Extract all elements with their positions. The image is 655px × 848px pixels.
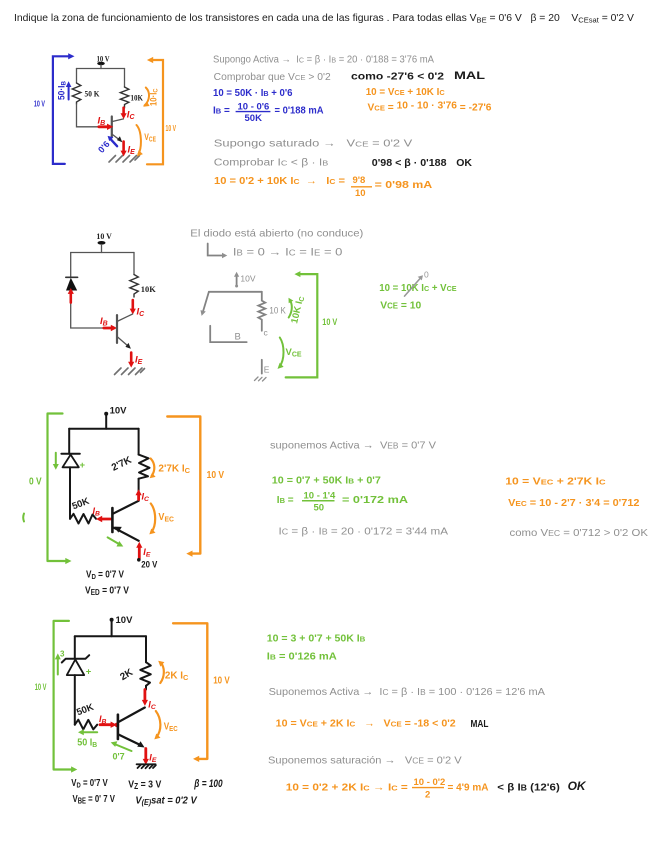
- annotation eq: 10=10KIc+VCE (green) with zero mark: [379, 270, 456, 297]
- sketch node B terminal: [210, 326, 247, 343]
- svg-text:β = 100: β = 100: [194, 778, 224, 790]
- svg-text:9'8: 9'8: [353, 175, 366, 186]
- annotation arrow 0'7 (green, emitter): [111, 741, 132, 761]
- diode D2 (cathode bar up, open triangle): [61, 454, 79, 468]
- bracket 10V (orange): [173, 623, 230, 762]
- svg-text:Suponemos saturación → VCE: Suponemos saturación → VCE = 0'2 V: [268, 755, 462, 767]
- svg-text:10 = 50K · IB + 0'6: 10 = 50K · IB + 0'6: [213, 88, 293, 99]
- svg-text:VZ = 3 V: VZ = 3 V: [128, 779, 161, 792]
- svg-text:10 - 0'2: 10 - 0'2: [414, 777, 446, 788]
- svg-text:10 = 0'2 + 2K IC → IC =: 10 = 0'2 + 2K IC → IC =: [286, 783, 408, 794]
- supply node 10V (circuit 1): [97, 55, 110, 69]
- svg-text:IC = β · IB = 20 · 0'172 =: IC = β · IB = 20 · 0'172 = 3'44 mA: [279, 526, 449, 538]
- ground (circuit 4, scribbled): [137, 764, 156, 768]
- transistor Q3 (PNP): [112, 501, 138, 541]
- svg-text:VD = 0'7 V: VD = 0'7 V: [86, 570, 124, 582]
- svg-text:+: +: [86, 667, 92, 678]
- bracket 10V (green) with wire from E: [286, 271, 338, 377]
- svg-text:MAL: MAL: [471, 718, 489, 730]
- ground (circuit 1): [109, 156, 140, 163]
- current arrow IB (red): [98, 116, 114, 131]
- svg-text:50K: 50K: [245, 113, 263, 124]
- svg-text:IB =: IB =: [213, 106, 230, 117]
- wire right branch upper: [138, 429, 140, 455]
- svg-text:IB = 0'126 mA: IB = 0'126 mA: [267, 652, 337, 663]
- diode D1 (cathode bar up, filled): [66, 277, 78, 290]
- annotation arrow up + 3 (green, zener voltage): [55, 650, 65, 675]
- svg-text:50 K: 50 K: [85, 90, 101, 99]
- svg-text:Comprobar IC < β · IB: Comprobar IC < β · IB: [214, 158, 329, 169]
- svg-text:2K IC: 2K IC: [165, 671, 189, 682]
- supply node 10V (circuit 2): [96, 231, 112, 253]
- current arrow IE (red): [121, 142, 136, 157]
- wire left branch to diode: [70, 253, 72, 278]
- svg-text:10K: 10K: [131, 94, 144, 103]
- svg-text:10 = 0'7 + 50K IB + 0'7: 10 = 0'7 + 50K IB + 0'7: [272, 476, 381, 487]
- svg-text:10 = VCE + 2K IC → VCE = -: 10 = VCE + 2K IC → VCE = -18 < 0'2: [276, 719, 456, 730]
- current arrow IE (red, up) + node 20V: [136, 542, 158, 571]
- resistor 50K (circuit 3): [70, 514, 96, 524]
- svg-text:E: E: [264, 365, 270, 375]
- bracket 10V source (blue): [34, 53, 75, 164]
- wire top rail: [77, 68, 125, 70]
- svg-text:10 K: 10 K: [269, 306, 285, 316]
- zener diode DZ (bar with bent ends, open triangle below): [62, 655, 89, 675]
- svg-text:0'7: 0'7: [113, 752, 125, 762]
- svg-text:10 V: 10 V: [34, 100, 45, 109]
- annotation I (green): [22, 514, 25, 522]
- svg-text:Suponemos Activa → IC = β ·: Suponemos Activa → IC = β · IB = 100 · 0…: [269, 686, 545, 698]
- wire right branch upper: [133, 253, 135, 275]
- svg-text:10 = VEC + 2'7K IC: 10 = VEC + 2'7K IC: [505, 477, 606, 488]
- svg-text:10 - 0'6: 10 - 0'6: [238, 102, 270, 113]
- svg-text:= 0'172 mA: = 0'172 mA: [342, 495, 408, 506]
- wire right branch upper: [145, 636, 147, 662]
- supply node 10V (circuit 4): [110, 615, 133, 636]
- svg-text:< β IB (12'6): < β IB (12'6): [497, 782, 560, 794]
- annotation arrow down (green, diode voltage): [53, 453, 59, 470]
- current arrow Ic (red): [121, 108, 136, 121]
- annotation arrow 0'6 (blue, across B-E): [96, 136, 117, 155]
- svg-text:0'98 < β · 0'188: 0'98 < β · 0'188: [372, 157, 447, 169]
- wire top rail: [71, 252, 134, 254]
- svg-text:0: 0: [424, 270, 429, 280]
- current arrow up through diode (red): [68, 288, 74, 303]
- annotation VEC (orange): [154, 711, 178, 739]
- resistor 10K (circuit 2): [130, 275, 139, 298]
- svg-text:10 V: 10 V: [207, 470, 225, 481]
- current arrow IB (red, pointing left): [93, 506, 111, 522]
- transistor Q1 (NPN): [112, 117, 124, 143]
- svg-text:suponemos Activa → VEB = 0': suponemos Activa → VEB = 0'7 V: [270, 440, 436, 452]
- svg-text:OK: OK: [568, 779, 587, 793]
- svg-text:OK: OK: [456, 157, 472, 169]
- svg-text:10 = VCE + 10K IC: 10 = VCE + 10K IC: [366, 87, 446, 98]
- annotation eq: 10=0'2+10KIc (orange): [214, 175, 432, 199]
- svg-text:VEC = 10 - 2'7 · 3'4 = 0'712: VEC = 10 - 2'7 · 3'4 = 0'712: [508, 498, 640, 509]
- svg-text:10 - 1'4: 10 - 1'4: [304, 491, 337, 502]
- svg-text:2: 2: [425, 790, 430, 801]
- svg-text:= 0'98 mA: = 0'98 mA: [375, 180, 433, 191]
- sketch node E terminal with ground: [255, 360, 270, 381]
- annotation 2K Ic (orange): [158, 661, 189, 683]
- resistor 50K (circuit 4): [75, 720, 97, 730]
- svg-text:como -27'6 < 0'2: como -27'6 < 0'2: [351, 71, 444, 83]
- svg-text:10 V: 10 V: [322, 317, 338, 328]
- svg-text:B: B: [235, 332, 241, 343]
- svg-text:IB = 0 → IC = IE = 0: IB = 0 → IC = IE = 0: [233, 247, 343, 259]
- annotation 2'7K Ic (orange): [150, 459, 191, 479]
- svg-text:10 = 10K IC + VCE: 10 = 10K IC + VCE: [379, 283, 456, 294]
- transistor Q4 (NPN): [118, 708, 145, 748]
- sketch annotation VCE (green): [278, 338, 302, 369]
- svg-text:10 V: 10 V: [166, 124, 177, 133]
- sketch wire top: [209, 291, 262, 293]
- svg-text:Supongo saturado → VCE = 0: Supongo saturado → VCE = 0'2 V: [214, 139, 413, 150]
- wire left branch lower to base: [77, 104, 101, 127]
- annotation eq: IB fraction (blue): [213, 102, 324, 125]
- wire resistor to collector (short): [145, 686, 147, 690]
- svg-text:10V: 10V: [240, 274, 255, 284]
- wire left branch upper: [76, 69, 78, 84]
- svg-text:10 = 0'2 + 10K IC → IC =: 10 = 0'2 + 10K IC → IC =: [214, 176, 345, 187]
- bracket 10V (orange): [167, 417, 224, 557]
- bracket 10V (green, left): [35, 621, 78, 773]
- svg-text:3: 3: [60, 650, 65, 659]
- current arrow IE (red): [128, 353, 143, 368]
- svg-text:como VEC = 0'712 > 0'2 OK: como VEC = 0'712 > 0'2 OK: [510, 527, 649, 539]
- wire right branch upper: [124, 69, 126, 88]
- sketch open switch (diode open): [201, 292, 209, 316]
- svg-text:+: +: [80, 460, 86, 471]
- svg-text:MAL: MAL: [454, 70, 485, 82]
- wire left branch lower: [71, 291, 104, 329]
- current arrow IE (red, down): [143, 749, 157, 765]
- svg-text:2'7K IC: 2'7K IC: [158, 464, 190, 475]
- resistor 2K: [140, 662, 151, 686]
- current arrow Ic (red, down): [142, 690, 156, 711]
- annotation eq: 10=0'2+2KIc -> Ic=4'9mA (orange): [286, 777, 489, 801]
- current arrow Ic (red): [130, 300, 145, 318]
- wire resistor to collector: [138, 479, 140, 501]
- wire left branch lower: [69, 467, 71, 519]
- annotation 50·IB drop (blue): [57, 81, 72, 100]
- current arrow IB (red): [100, 316, 117, 331]
- svg-text:VCE = 10: VCE = 10: [380, 300, 421, 312]
- svg-text:= 4'9 mA: = 4'9 mA: [448, 783, 489, 794]
- svg-text:= 0'188 mA: = 0'188 mA: [275, 106, 324, 117]
- bracket 10V loop (orange): [147, 57, 177, 164]
- svg-text:10: 10: [355, 188, 366, 199]
- svg-text:10 V: 10 V: [35, 682, 47, 693]
- annotation arrow 50 IB (green): [77, 729, 98, 749]
- svg-text:0 V: 0 V: [29, 477, 42, 488]
- wire left branch to diode: [68, 429, 70, 454]
- resistor 2'7K: [139, 455, 150, 479]
- svg-text:10V: 10V: [116, 615, 134, 626]
- svg-text:10 = 3 + 0'7 + 50K IB: 10 = 3 + 0'7 + 50K IB: [267, 634, 366, 645]
- resistor 50K: [72, 83, 81, 104]
- current arrow Ic (red, up): [136, 489, 150, 503]
- sketch supply node 10V (grey): [234, 272, 256, 288]
- annotation elbow arrow (grey): [208, 244, 228, 259]
- svg-text:IB =: IB =: [277, 495, 294, 506]
- svg-text:10V: 10V: [110, 406, 128, 417]
- supply node 10V (circuit 3): [104, 406, 127, 429]
- svg-text:20 V: 20 V: [141, 560, 158, 571]
- svg-text:10 V: 10 V: [213, 676, 230, 687]
- current arrow IB (red, into base): [99, 714, 119, 728]
- transistor Q2 (NPN): [117, 314, 133, 349]
- annotation arrow (green, emitter): [108, 537, 124, 546]
- svg-text:VEC: VEC: [158, 512, 174, 523]
- svg-text:50 IB: 50 IB: [77, 738, 98, 749]
- svg-text:Supongo Activa → IC = β · IB: Supongo Activa → IC = β · IB = 20 · 0'18…: [213, 55, 434, 66]
- svg-text:Indique la zona de funcionamie: Indique la zona de funcionamiento de los…: [14, 13, 634, 25]
- svg-text:10K: 10K: [141, 284, 156, 294]
- annotation VCE (orange): [137, 125, 157, 157]
- sketch annotation 10K·Ic (green): [289, 295, 307, 325]
- sketch resistor 10K (grey): [258, 292, 265, 331]
- svg-text:Comprobar que VCE > 0'2: Comprobar que VCE > 0'2: [214, 72, 331, 83]
- wire top rail: [69, 428, 138, 430]
- wire left branch lower: [74, 675, 76, 725]
- wire top rail: [75, 635, 146, 637]
- svg-text:VEC: VEC: [164, 722, 178, 733]
- annotation eq: IB fraction (green): [277, 491, 408, 514]
- bracket 0V (green): [29, 414, 72, 565]
- annotation VEC (orange): [149, 504, 174, 535]
- svg-text:10 V: 10 V: [96, 231, 112, 241]
- svg-text:50: 50: [314, 503, 325, 514]
- svg-text:VD = 0'7 V: VD = 0'7 V: [71, 778, 108, 790]
- ground (circuit 2): [115, 368, 145, 375]
- wire left branch to zener: [74, 636, 76, 659]
- resistor 10K: [120, 87, 129, 108]
- svg-text:El diodo está abierto (no con: El diodo está abierto (no conduce): [190, 228, 363, 240]
- annotation 10·Ic drop (orange): [143, 88, 160, 107]
